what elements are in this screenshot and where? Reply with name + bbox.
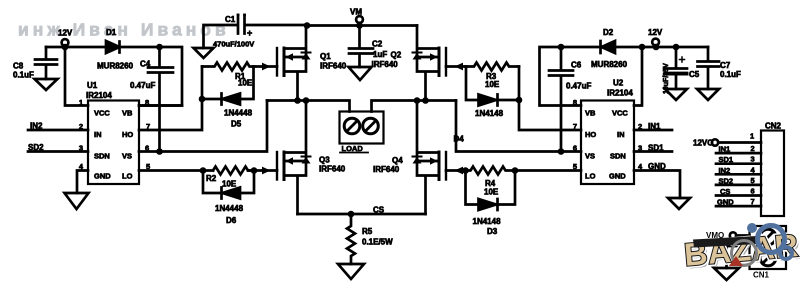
- svg-text:VS: VS: [585, 152, 595, 161]
- svg-text:5: 5: [573, 162, 577, 171]
- svg-text:0.1E/5W: 0.1E/5W: [362, 238, 393, 247]
- svg-text:12V: 12V: [648, 28, 663, 37]
- svg-text:SDN: SDN: [94, 152, 110, 161]
- svg-text:6: 6: [145, 144, 149, 153]
- svg-text:SD2: SD2: [719, 176, 734, 185]
- capacitor C6: [549, 47, 573, 152]
- svg-text:10E: 10E: [485, 80, 500, 89]
- svg-text:0.47uF: 0.47uF: [566, 82, 591, 91]
- svg-text:7: 7: [146, 122, 150, 131]
- svg-text:470uF/100V: 470uF/100V: [213, 40, 254, 49]
- wire 12V rail right: [615, 46, 708, 49]
- diode D2: [602, 41, 616, 53]
- wire CN2 pin3 SD1: [716, 162, 761, 165]
- svg-text:CN2: CN2: [765, 122, 782, 131]
- svg-text:Q3: Q3: [319, 156, 330, 165]
- svg-text:SD1: SD1: [719, 155, 734, 164]
- pin numbers U2: [573, 98, 643, 171]
- op-amp U2 IR2104 body: [581, 101, 634, 185]
- svg-text:0.47uF: 0.47uF: [130, 81, 155, 90]
- power 12V right: [652, 39, 659, 46]
- capacitor C8: [35, 47, 57, 79]
- svg-text:10E: 10E: [238, 79, 253, 88]
- svg-text:+: +: [247, 28, 252, 38]
- svg-text:IN2: IN2: [719, 166, 731, 175]
- wire CN2 pin7 GND: [716, 205, 761, 208]
- svg-text:LO: LO: [122, 172, 133, 181]
- svg-text:C2: C2: [372, 40, 383, 49]
- capacitor C7: [698, 47, 720, 89]
- svg-text:3: 3: [79, 144, 83, 153]
- resistor R5: [347, 214, 355, 264]
- svg-text:C4: C4: [140, 60, 151, 69]
- wire U1 pin5 LO: [139, 169, 213, 172]
- wire D1 cathode to VB: [120, 47, 183, 106]
- svg-text:IN: IN: [94, 130, 102, 139]
- svg-text:3: 3: [638, 144, 642, 153]
- resistor R2: [213, 167, 254, 175]
- svg-text:1N4448: 1N4448: [224, 109, 253, 118]
- svg-text:5: 5: [751, 176, 755, 185]
- wire CN2 pin2 IN1: [716, 152, 761, 155]
- resistor R3: [466, 63, 519, 71]
- svg-text:6: 6: [573, 144, 577, 153]
- svg-text:VB: VB: [585, 109, 596, 118]
- svg-text:SD2: SD2: [28, 143, 44, 152]
- power 12V left: [62, 39, 69, 46]
- ground under C8: [35, 79, 58, 90]
- pin names U1: [94, 109, 133, 181]
- connector CN2: [761, 131, 784, 217]
- svg-text:MUR8260: MUR8260: [97, 62, 134, 71]
- diode D5: [202, 67, 254, 105]
- svg-text:IRF640: IRF640: [373, 165, 400, 174]
- capacitor C2: [349, 26, 373, 68]
- wire CN2 pin5 SD2: [716, 184, 761, 187]
- wire U1 pin2 IN input IN2: [28, 129, 88, 132]
- wire U1 pin8 VB stub: [139, 104, 182, 107]
- transistor Q2 IRF640: [413, 26, 447, 101]
- wire D2 cathode to VB2: [540, 47, 601, 106]
- svg-text:8: 8: [145, 98, 149, 107]
- transistor Q4 IRF640: [413, 101, 447, 215]
- wire LO1 to Q3 gate: [248, 169, 277, 172]
- svg-text:LO: LO: [585, 172, 596, 181]
- svg-text:1N4448: 1N4448: [215, 204, 244, 213]
- wire CS rail: [298, 213, 426, 216]
- svg-text:VMO: VMO: [706, 231, 724, 240]
- ground under C7: [697, 89, 719, 100]
- wire CN2 pin4 IN2: [716, 173, 761, 176]
- svg-text:VCC: VCC: [612, 109, 628, 118]
- wire U2 pin2 IN input IN1: [634, 129, 672, 132]
- svg-text:5: 5: [146, 162, 150, 171]
- svg-text:D1: D1: [106, 28, 117, 37]
- svg-text:10uF/35V: 10uF/35V: [663, 63, 670, 94]
- wire CN2 pin6 CS: [716, 194, 761, 197]
- capacitor C1: [204, 15, 308, 48]
- transistor Q1 IRF640: [277, 26, 311, 101]
- svg-text:D3: D3: [487, 227, 498, 236]
- wire LO2 to Q4 gate: [446, 169, 466, 172]
- svg-text:10E: 10E: [222, 180, 237, 189]
- wire U1 pin7 HO: [139, 67, 202, 131]
- svg-text:U1: U1: [87, 81, 98, 90]
- wire U2 pin4 GND: [634, 171, 680, 199]
- svg-text:D6: D6: [226, 216, 237, 225]
- capacitor C5: [665, 47, 687, 89]
- junction dots: [304, 22, 311, 29]
- svg-text:3: 3: [751, 155, 755, 164]
- op-amp U1 IR2104 body: [88, 101, 139, 185]
- svg-text:U2: U2: [613, 79, 624, 88]
- svg-text:GND: GND: [648, 162, 666, 171]
- svg-text:GND: GND: [94, 172, 111, 181]
- wire U1 pin4 GND: [77, 171, 88, 194]
- diode D3: [466, 171, 516, 211]
- svg-text:SDN: SDN: [610, 152, 626, 161]
- svg-text:CS: CS: [373, 206, 385, 215]
- svg-text:12VO: 12VO: [693, 139, 713, 148]
- svg-text:8: 8: [573, 98, 577, 107]
- wire U1 pin1 VCC: [65, 47, 88, 106]
- ground under U2: [668, 198, 690, 209]
- svg-text:1: 1: [750, 132, 754, 141]
- pin numbers CN2: [750, 132, 756, 207]
- svg-text:C6: C6: [571, 61, 582, 70]
- power VM node: [356, 16, 363, 23]
- capacitor C4: [148, 47, 173, 152]
- svg-text:CN1: CN1: [753, 271, 770, 280]
- svg-text:CS: CS: [720, 187, 730, 196]
- svg-text:C1: C1: [225, 15, 236, 24]
- wire U2 pin5 LO: [515, 169, 581, 172]
- svg-text:VCC: VCC: [94, 109, 110, 118]
- wire U1 pin3 SDN input SD2: [28, 150, 88, 153]
- svg-text:IRF640: IRF640: [319, 165, 346, 174]
- resistor R1: [202, 63, 254, 71]
- diode D4: [466, 67, 519, 106]
- wire U2 pin7 HO: [519, 67, 581, 131]
- svg-text:R2: R2: [206, 174, 217, 183]
- svg-text:IRF640: IRF640: [320, 62, 347, 71]
- logo BAZAR watermark: [683, 223, 800, 280]
- svg-text:VS: VS: [122, 152, 132, 161]
- svg-text:IN: IN: [617, 130, 625, 139]
- svg-text:Q2: Q2: [391, 51, 402, 60]
- svg-text:D4: D4: [454, 135, 465, 144]
- svg-text:R5: R5: [362, 227, 373, 236]
- terminal block LOAD: [340, 112, 384, 144]
- svg-text:Q4: Q4: [392, 156, 403, 165]
- pin numbers U1: [79, 98, 150, 171]
- connector CN1: [750, 226, 787, 269]
- svg-text:HO: HO: [122, 130, 133, 139]
- svg-text:1N4148: 1N4148: [473, 217, 502, 226]
- svg-text:1: 1: [79, 98, 83, 107]
- svg-text:IN1: IN1: [648, 122, 661, 131]
- ground under C2: [349, 67, 372, 80]
- svg-text:VM: VM: [350, 8, 362, 17]
- svg-text:LOAD: LOAD: [342, 144, 364, 153]
- wire HO1 to Q1 gate: [254, 65, 278, 68]
- ground under C5: [665, 89, 687, 100]
- svg-text:IRF640: IRF640: [372, 60, 399, 69]
- svg-text:7: 7: [751, 197, 755, 206]
- svg-text:SD1: SD1: [648, 144, 664, 153]
- diode D6: [203, 171, 254, 199]
- wire U1 pin6 VS: [139, 101, 267, 152]
- wire CN1 pin2 to ground: [727, 246, 750, 268]
- node B wire: [372, 101, 457, 112]
- svg-text:0.1uF: 0.1uF: [720, 70, 741, 79]
- svg-text:инж Иван Иванов: инж Иван Иванов: [18, 20, 230, 40]
- wire VM rail: [307, 24, 417, 27]
- wire HO2 to Q2 gate: [446, 65, 466, 68]
- svg-text:D2: D2: [603, 28, 614, 37]
- svg-text:1uF: 1uF: [373, 50, 387, 59]
- svg-text:2: 2: [638, 122, 642, 131]
- ground under R5: [338, 264, 364, 279]
- node A wire: [267, 101, 350, 112]
- svg-text:7: 7: [573, 122, 577, 131]
- node 12VO: [712, 139, 718, 145]
- net labels CN2: [717, 145, 734, 207]
- svg-text:IN2: IN2: [30, 122, 43, 131]
- svg-text:2: 2: [79, 122, 83, 131]
- svg-text:2: 2: [751, 144, 755, 153]
- svg-text:MUR8260: MUR8260: [591, 60, 628, 69]
- svg-text:0.1uF: 0.1uF: [13, 71, 34, 80]
- node VMO: [730, 232, 736, 238]
- svg-text:GND: GND: [609, 172, 626, 181]
- svg-text:1N4148: 1N4148: [475, 109, 504, 118]
- svg-text:12V: 12V: [58, 29, 73, 38]
- ground under U1: [65, 193, 89, 209]
- svg-text:VB: VB: [122, 109, 133, 118]
- svg-text:IN1: IN1: [719, 145, 731, 154]
- svg-text:IR2104: IR2104: [607, 89, 633, 98]
- plus sign C5: [680, 57, 685, 62]
- svg-text:HO: HO: [585, 130, 596, 139]
- resistor R4: [462, 167, 515, 175]
- svg-text:GND: GND: [717, 198, 734, 207]
- svg-text:6: 6: [751, 187, 755, 196]
- wire U2 pin1 VCC: [634, 47, 642, 106]
- svg-text:C8: C8: [13, 62, 24, 71]
- diode D1: [106, 41, 120, 53]
- wire 12V rail left: [46, 46, 106, 49]
- transistor Q3 IRF640: [277, 101, 311, 215]
- wire U2 pin6 VS: [456, 101, 581, 152]
- svg-text:10E: 10E: [484, 188, 499, 197]
- wire U2 pin3 SDN input SD1: [634, 150, 672, 153]
- svg-text:D5: D5: [231, 120, 242, 129]
- ground under CN1: [714, 268, 739, 280]
- pin names U2: [585, 109, 628, 181]
- svg-text:Q1: Q1: [320, 52, 331, 61]
- svg-text:C5: C5: [689, 70, 700, 79]
- ground under C1: [194, 48, 214, 58]
- svg-text:C7: C7: [720, 61, 731, 70]
- svg-text:IR2104: IR2104: [86, 91, 112, 100]
